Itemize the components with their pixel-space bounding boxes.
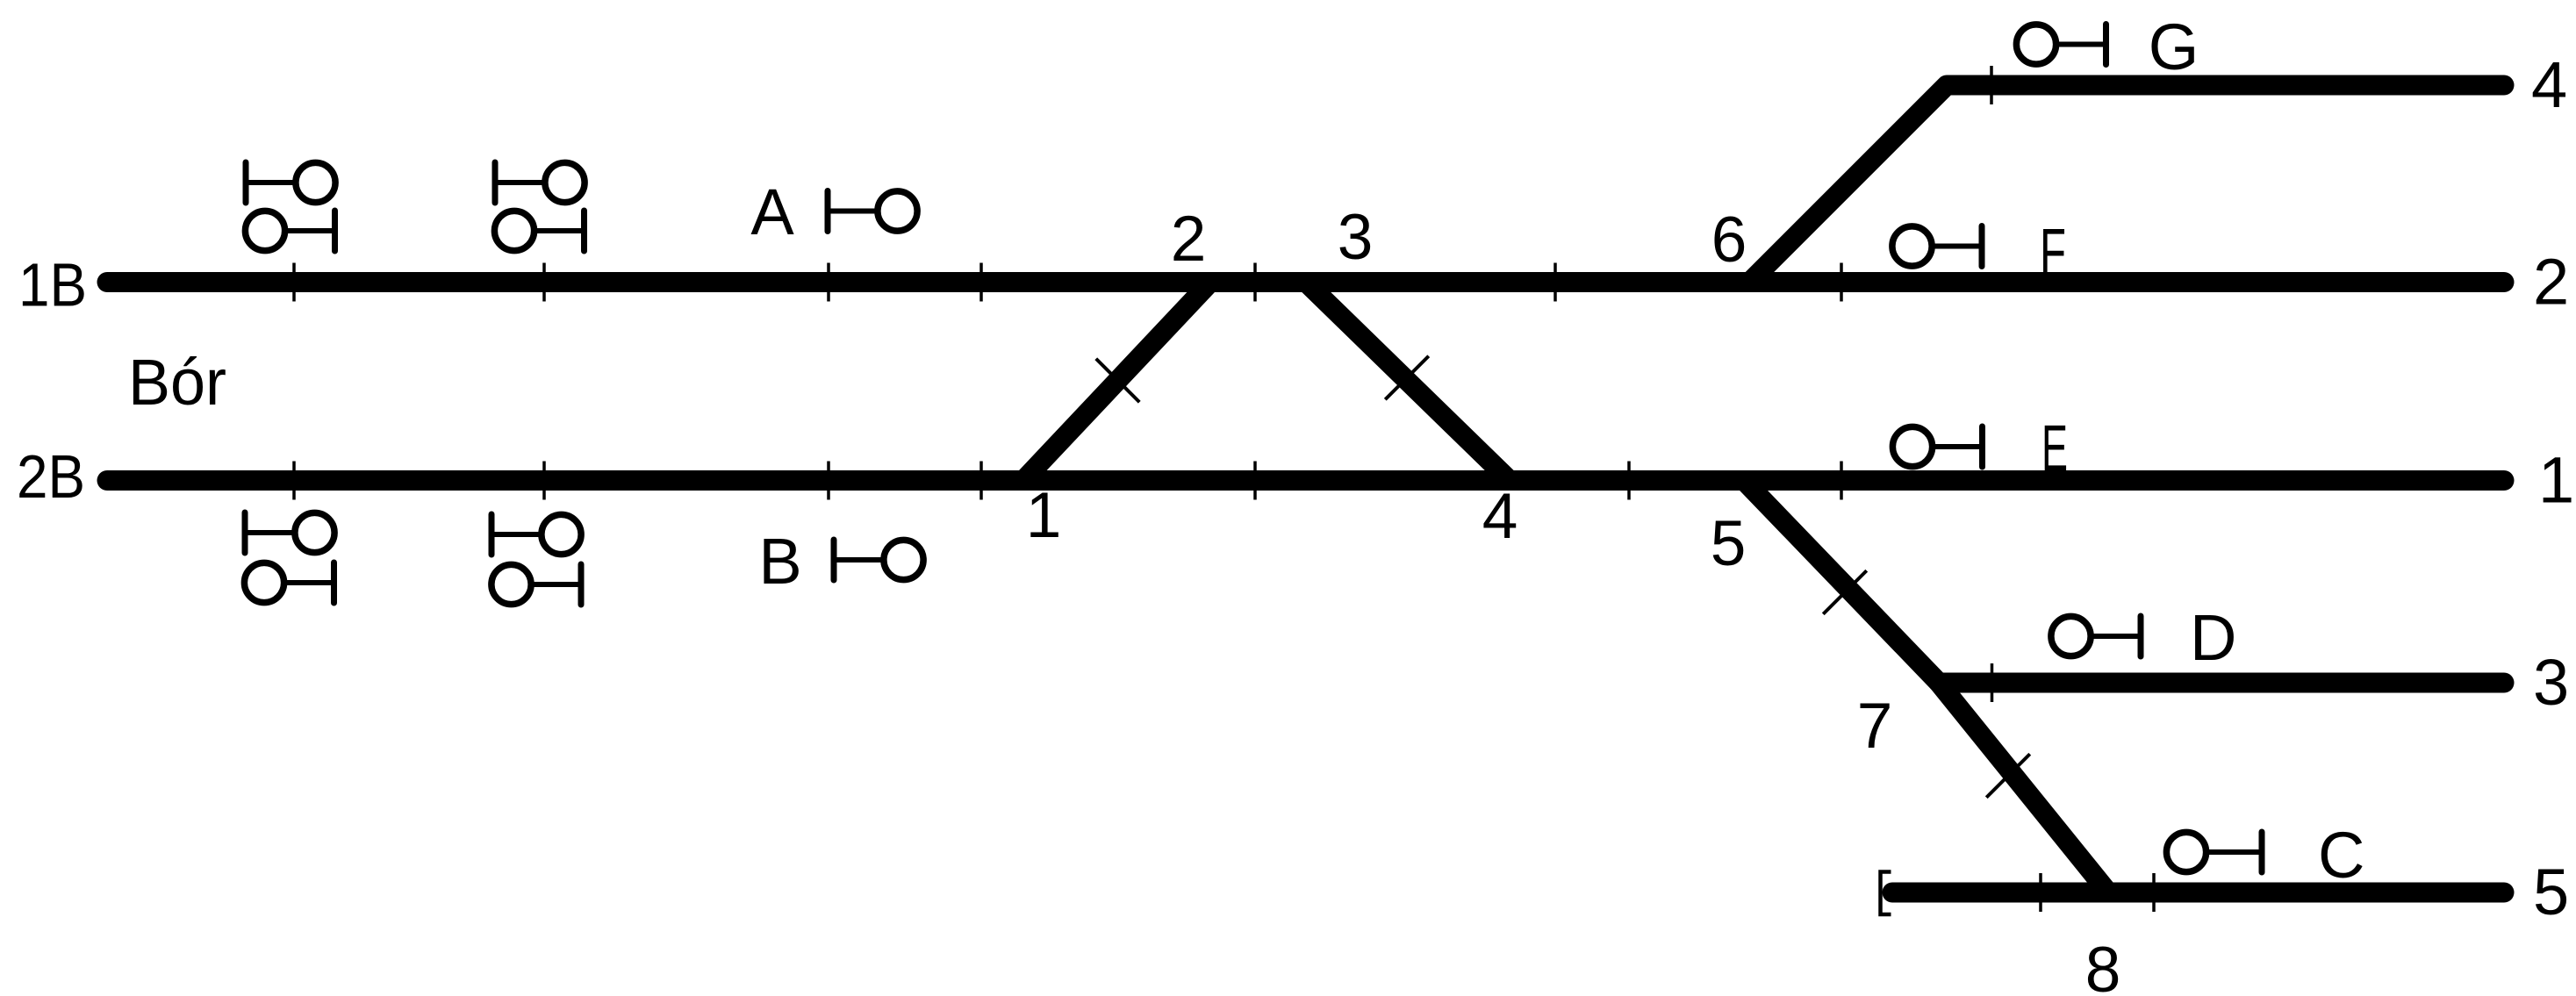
turnout 3-4 crossover diagonal (1306, 283, 1510, 481)
insulated joint tick on branch 5-7 (1823, 570, 1867, 614)
insulated joint tick t5-1 (2039, 873, 2042, 912)
insulated joint tick 1B-3 (827, 263, 830, 302)
insulated joint tick 2B-1 (292, 462, 296, 500)
insulated joint tick on turnout 1-2 (1096, 359, 1140, 403)
insulated joint tick 1B-2 (542, 263, 546, 302)
svg-text:E: E (2041, 412, 2068, 484)
svg-text:3: 3 (2533, 646, 2569, 719)
signal A (bar-left circle-right) (828, 191, 917, 232)
svg-text:A: A (750, 176, 794, 248)
insulated joint tick 1B-5 (1253, 263, 1257, 302)
signal pair2 lower (circle-left bar-right) (494, 211, 584, 251)
turnout 1-2 crossover diagonal (1023, 283, 1210, 481)
svg-text:2: 2 (2533, 246, 2569, 319)
insulated joint tick 2B-6 (1627, 462, 1631, 500)
insulated joint tick on branch 7-8 (1986, 754, 2030, 798)
buffer stop bracket at track 5 (1881, 872, 1891, 915)
insulated joint tick 2B-2 (542, 462, 546, 500)
insulated joint tick 1B-4 (979, 263, 983, 302)
svg-text:4: 4 (1482, 481, 1518, 552)
signal B (bar-left circle-right) (834, 540, 923, 580)
turnout 5-7-8 branch diagonal (1744, 481, 2108, 893)
turnout 6 branch and track 4 (1750, 85, 2505, 283)
signal G (circle-left bar-right) (2016, 25, 2106, 65)
svg-text:1: 1 (1026, 480, 1062, 551)
insulated joint tick 2B-4 (979, 462, 983, 500)
track 2B / 1 main line (107, 470, 2504, 491)
signal pair4 upper (bar-left circle-right) (492, 514, 581, 555)
svg-text:1: 1 (2538, 444, 2574, 517)
insulated joint tick 1B-1 (292, 263, 296, 302)
signal pair3 upper (bar-left circle-right) (245, 512, 334, 553)
svg-text:F: F (2040, 215, 2066, 288)
svg-text:4: 4 (2531, 48, 2567, 121)
insulated joint tick 1B-7 (1840, 263, 1843, 302)
insulated joint tick 2B-5 (1253, 462, 1257, 500)
insulated joint tick on turnout 3-4 (1385, 356, 1429, 400)
track 5 (1892, 883, 2504, 903)
svg-text:G: G (2149, 11, 2199, 83)
signal pair3 lower (circle-left bar-right) (244, 562, 334, 603)
svg-text:3: 3 (1338, 202, 1374, 273)
insulated joint tick t5-2 (2152, 873, 2156, 912)
svg-text:6: 6 (1711, 204, 1747, 276)
svg-text:2B: 2B (17, 442, 85, 511)
svg-text:1B: 1B (18, 251, 87, 319)
insulated joint tick t4 (1990, 66, 1993, 104)
svg-text:8: 8 (2085, 935, 2121, 996)
insulated joint tick 1B-6 (1553, 263, 1557, 302)
insulated joint tick t3 (1991, 663, 1994, 702)
svg-text:5: 5 (1711, 508, 1747, 579)
insulated joint tick 2B-3 (827, 462, 830, 500)
signal D (circle-left bar-right) (2051, 616, 2141, 656)
signal pair1 lower (circle-left bar-right) (245, 211, 334, 251)
signal pair2 upper (bar-left circle-right) (495, 162, 585, 203)
signal F (circle-left bar-right) (1892, 226, 1982, 267)
track 3 (1939, 673, 2504, 693)
svg-text:Bór: Bór (128, 346, 226, 419)
svg-text:D: D (2190, 601, 2236, 674)
svg-text:7: 7 (1857, 691, 1893, 762)
signal E (circle-left bar-right) (1892, 426, 1982, 467)
svg-text:B: B (758, 525, 801, 598)
signal pair1 upper (bar-left circle-right) (246, 162, 335, 203)
insulated joint tick 2B-7 (1840, 462, 1843, 500)
track 1B / 2 main line (107, 272, 2504, 292)
svg-text:2: 2 (1171, 204, 1207, 275)
signal C (circle-left bar-right) (2166, 832, 2262, 872)
signal pair4 lower (circle-left bar-right) (492, 564, 581, 605)
svg-text:C: C (2318, 819, 2364, 892)
svg-text:5: 5 (2533, 856, 2569, 928)
